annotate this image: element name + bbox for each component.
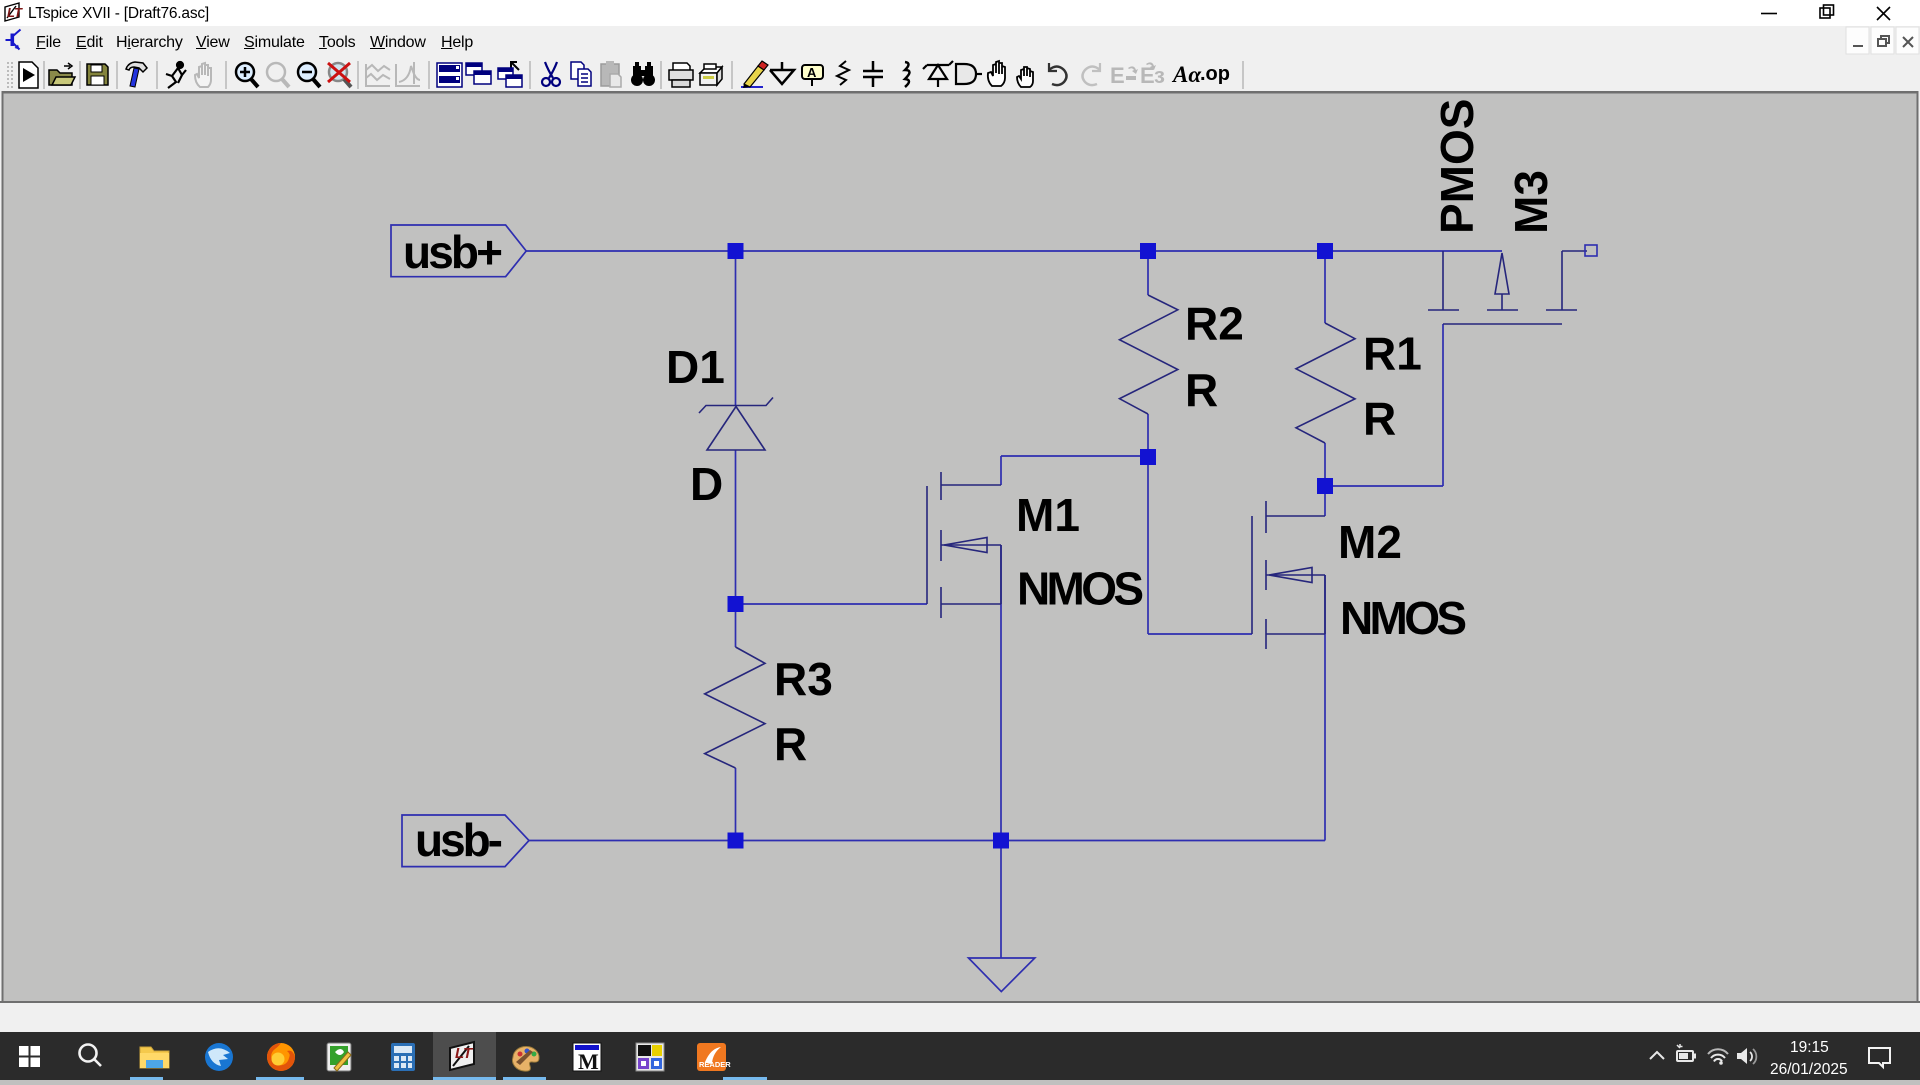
svg-text:.op: .op — [1200, 63, 1230, 85]
svg-text:R: R — [1363, 392, 1396, 444]
svg-text:R3: R3 — [774, 653, 833, 705]
svg-text:19:15: 19:15 — [1790, 1039, 1829, 1056]
svg-text:usb-: usb- — [415, 814, 503, 866]
svg-text:D1: D1 — [666, 341, 725, 393]
svg-text:M1: M1 — [1016, 489, 1080, 541]
svg-text:R2: R2 — [1185, 298, 1244, 350]
svg-text:Aα: Aα — [1171, 62, 1202, 87]
svg-text:R: R — [1185, 364, 1218, 416]
svg-text:PMOS: PMOS — [1431, 99, 1483, 234]
svg-text:ɜ: ɜ — [1154, 63, 1165, 88]
svg-text:usb+: usb+ — [403, 226, 503, 278]
svg-text:M3: M3 — [1505, 170, 1557, 234]
svg-text:A: A — [807, 65, 817, 80]
svg-text:E: E — [1110, 63, 1125, 88]
svg-text:R: R — [774, 718, 807, 770]
svg-text:D: D — [690, 458, 723, 510]
svg-text:R1: R1 — [1363, 327, 1422, 379]
svg-text:LT: LT — [7, 5, 23, 20]
svg-text:26/01/2025: 26/01/2025 — [1770, 1061, 1848, 1078]
svg-text:NMOS: NMOS — [1340, 592, 1467, 644]
svg-text:NMOS: NMOS — [1017, 563, 1144, 615]
svg-text:M2: M2 — [1338, 516, 1402, 568]
